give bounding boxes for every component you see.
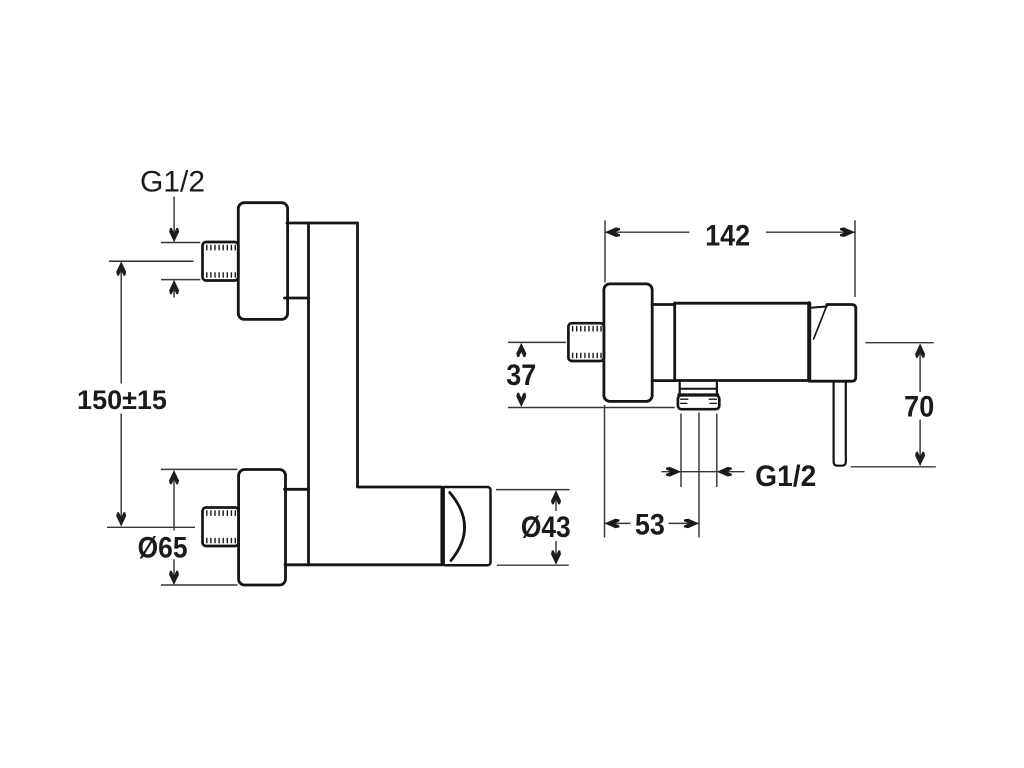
- svg-text:G1/2: G1/2: [755, 460, 816, 493]
- svg-text:Ø43: Ø43: [521, 509, 571, 543]
- svg-text:142: 142: [705, 219, 750, 253]
- svg-text:53: 53: [635, 508, 665, 542]
- svg-text:G1/2: G1/2: [140, 166, 205, 199]
- svg-text:150±15: 150±15: [77, 385, 167, 415]
- svg-text:Ø65: Ø65: [138, 530, 188, 564]
- svg-text:37: 37: [506, 359, 536, 393]
- svg-text:70: 70: [904, 390, 934, 424]
